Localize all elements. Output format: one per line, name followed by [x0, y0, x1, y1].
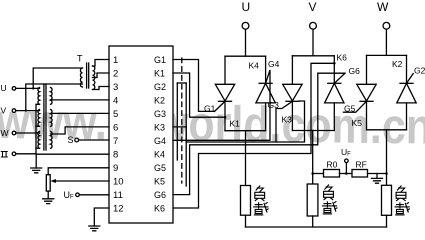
ground [89, 226, 100, 231]
wire K6 [173, 63, 334, 208]
terminal V [12, 109, 16, 113]
label load U [255, 186, 265, 201]
svg-text:K5: K5 [352, 118, 363, 128]
wire T primary bottom to V line [26, 84, 83, 111]
wire sec a to pin4 [51, 99, 110, 101]
wire G1 [173, 60, 215, 112]
wire U drop [245, 29, 247, 56]
wire R0 line [313, 173, 324, 175]
svg-text:W: W [377, 0, 389, 14]
svg-text:G2: G2 [154, 82, 166, 92]
svg-text:S: S [68, 135, 74, 145]
wire U load drop [245, 131, 247, 186]
svg-text:10: 10 [113, 177, 124, 188]
svg-text:RF: RF [356, 160, 367, 170]
wire N terminal [16, 153, 36, 155]
svg-text:G1: G1 [154, 55, 166, 65]
wire winding bottoms to N bus [36, 104, 40, 154]
svg-text:3: 3 [113, 82, 118, 93]
terminal W [12, 131, 16, 135]
wire K3 [173, 101, 305, 142]
sync primary winding a [38, 88, 40, 105]
ground [31, 168, 42, 173]
svg-text:G3: G3 [268, 100, 280, 110]
gate G6 diag [334, 73, 345, 83]
junction W load [385, 172, 388, 175]
V bottom bar [292, 130, 334, 132]
terminal U [242, 22, 249, 29]
dashed line [181, 58, 183, 183]
svg-text:K2: K2 [392, 59, 403, 69]
label N input (drawn) [1, 152, 8, 158]
svg-text:V: V [309, 0, 317, 14]
svg-text:2: 2 [113, 69, 118, 80]
IC pin numbers [113, 55, 124, 215]
sync primary winding b [38, 110, 40, 127]
wire W load drop [386, 130, 388, 186]
wire winding tops [38, 87, 40, 89]
svg-text:T: T [77, 54, 83, 64]
ground after RF [376, 174, 378, 179]
svg-text:K6: K6 [154, 204, 165, 214]
gate G2 diag [407, 74, 414, 84]
terminal V [310, 22, 317, 29]
ground [43, 199, 54, 204]
load V box [307, 184, 318, 216]
thyristor V3 (V fwd) [291, 56, 293, 85]
U bottom bar [225, 130, 266, 132]
wire W drop [385, 29, 387, 55]
wire W terminal [16, 132, 38, 134]
wire U terminal [16, 87, 38, 89]
svg-text:6: 6 [113, 123, 118, 134]
wire pot top to pin9 [48, 168, 109, 175]
wire T primary top to U line [33, 68, 82, 88]
thyristor V4 (U rev) [265, 56, 267, 83]
SCR labels [204, 53, 425, 170]
wire Ur to pin11 [79, 194, 109, 196]
junction V load [311, 172, 314, 175]
svg-text:9: 9 [113, 163, 118, 174]
thyristor V5 (W fwd) [366, 55, 368, 84]
wire RF right [368, 173, 387, 175]
wire W load bottom [386, 215, 388, 227]
terminal W [383, 22, 390, 29]
wire U load bottom [245, 215, 247, 227]
svg-text:12: 12 [113, 204, 124, 215]
IC pin names [154, 55, 166, 214]
svg-text:K4: K4 [249, 61, 260, 71]
svg-text:5: 5 [113, 109, 118, 120]
wire R0-RF [340, 173, 353, 175]
thyristor V6 (V rev) [333, 56, 335, 84]
svg-text:11: 11 [113, 190, 123, 201]
sync core [43, 84, 45, 150]
wire U top bar [225, 55, 266, 57]
junction K1 [224, 116, 227, 119]
svg-text:G3: G3 [154, 109, 166, 119]
svg-text:G1: G1 [204, 104, 216, 114]
wire T sec tap1 to pin1 [93, 60, 110, 67]
svg-text:K1: K1 [154, 69, 165, 79]
svg-text:G6: G6 [349, 66, 361, 76]
svg-text:K3: K3 [154, 123, 165, 133]
svg-text:G5: G5 [344, 104, 356, 114]
thyristor V1 (U fwd) [224, 56, 226, 84]
load W box [382, 185, 392, 215]
svg-text:K3: K3 [282, 115, 293, 125]
wire V drop [312, 29, 314, 56]
wire V load drop [312, 131, 314, 185]
svg-text:V: V [1, 106, 7, 116]
wire K1 [173, 73, 225, 117]
wire V terminal [16, 110, 38, 112]
wire T sec tap3 to pin3 [93, 87, 110, 90]
resistor R0 [324, 170, 340, 178]
svg-text:K6: K6 [337, 53, 348, 63]
bottom bus [246, 226, 387, 228]
sync secondary winding c [51, 132, 53, 149]
svg-text:K4: K4 [154, 150, 165, 160]
gate G5 diag [344, 101, 367, 112]
sync secondary winding a [51, 88, 53, 105]
T primary winding [80, 68, 82, 87]
W bottom bar [367, 129, 407, 131]
label load W [396, 186, 406, 201]
wire pot bottom [47, 191, 49, 199]
junction T primary bottom / V [25, 109, 27, 111]
wire sec c to pin6 [51, 127, 110, 134]
sync secondary winding b [51, 110, 53, 127]
Ur terminal stub [345, 163, 347, 174]
wire V load bottom [312, 216, 314, 227]
svg-text:K5: K5 [154, 177, 165, 187]
T secondary winding [93, 66, 95, 89]
svg-text:4: 4 [113, 96, 118, 107]
svg-text:7: 7 [113, 136, 118, 147]
pot wiper arrow to pin10 [55, 180, 110, 182]
svg-text:G5: G5 [154, 163, 166, 173]
wire G6 [173, 73, 345, 194]
wire S to pin7 [79, 139, 109, 141]
gate G3 diag [276, 101, 292, 142]
thyristor V2 (W rev) [406, 55, 408, 83]
T core [86, 63, 88, 88]
wire sec b to pin5 [51, 112, 110, 114]
junction K6 [333, 62, 336, 65]
svg-text:1: 1 [113, 55, 118, 66]
gate G1 diag [215, 101, 226, 111]
svg-text:U: U [1, 83, 7, 93]
svg-text:8: 8 [113, 150, 118, 161]
terminal U [12, 87, 16, 91]
svg-text:U: U [242, 0, 251, 14]
svg-text:G6: G6 [154, 190, 166, 200]
resistor RF [352, 170, 368, 178]
terminal N [12, 152, 16, 156]
junction T primary top / U [32, 87, 34, 89]
label load V [324, 185, 334, 200]
wire G4 [173, 70, 270, 140]
junction Ur [345, 172, 348, 175]
wire T sec tap2 to pin2 [93, 73, 110, 78]
wire W top bar [367, 54, 407, 56]
svg-text:G4: G4 [268, 59, 280, 69]
svg-text:W: W [1, 128, 9, 138]
wire V top bar [292, 55, 334, 57]
svg-text:G2: G2 [414, 66, 425, 76]
sync primary winding c [38, 132, 40, 149]
svg-text:K2: K2 [154, 96, 165, 106]
load U box [241, 186, 251, 216]
svg-text:R0: R0 [327, 160, 338, 170]
svg-text:G4: G4 [154, 136, 166, 146]
svg-text:K1: K1 [230, 119, 241, 129]
